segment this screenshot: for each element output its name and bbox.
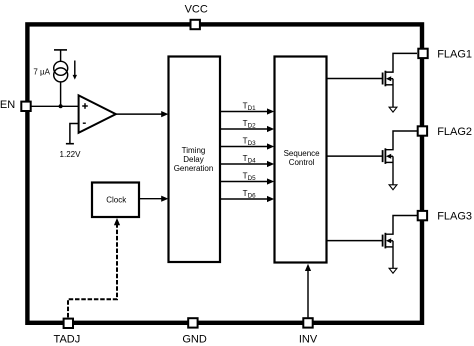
drain stub Q3 (385, 216, 417, 235)
svg-text:Delay: Delay (183, 155, 203, 164)
svg-text:FLAG3: FLAG3 (437, 211, 472, 223)
svg-text:INV: INV (299, 334, 318, 346)
transistor Q1 (FLAG1 driver) (327, 53, 418, 112)
gate wire Q3 (327, 240, 383, 242)
svg-text:Sequence: Sequence (284, 149, 321, 158)
wire EN to op-amp (31, 105, 79, 107)
source stub Q1 (385, 84, 393, 86)
wire TD6 (221, 189, 275, 202)
gate plate Q3 (382, 235, 384, 247)
body arrow Q2 (386, 154, 391, 159)
pin FLAG1 (418, 49, 427, 58)
drain stub Q2 (385, 131, 417, 150)
transistor Q2 (FLAG2 driver) (327, 131, 418, 190)
pin FLAG3 (418, 211, 427, 220)
source stub Q2 (385, 161, 393, 163)
body arrow Q1 (386, 76, 391, 81)
svg-text:Control: Control (289, 158, 315, 167)
channel Q2 (384, 148, 386, 164)
current source I1 7uA (54, 50, 68, 106)
reference 1.22V terminal (66, 124, 79, 144)
ground Q2 (389, 185, 397, 190)
op-amp comparator U1 (79, 95, 116, 132)
pin EN (21, 102, 30, 111)
transistor Q3 (FLAG3 driver) (327, 216, 418, 274)
svg-text:D5: D5 (248, 175, 257, 182)
wire TD5 (221, 171, 275, 184)
gate wire Q2 (327, 155, 383, 157)
wire Clock to Timing block (139, 196, 168, 202)
pin INV (303, 318, 312, 327)
ground Q1 (389, 107, 397, 112)
IC outline border (27, 24, 422, 322)
junction node EN/current source (59, 104, 63, 108)
ground Q3 (389, 268, 397, 273)
source down wire Q1 (392, 79, 394, 108)
source down wire Q2 (392, 156, 394, 185)
channel Q1 (384, 71, 386, 87)
source stub Q3 (385, 246, 393, 248)
minus input marker (83, 122, 86, 124)
plus input marker (82, 105, 88, 107)
svg-text:FLAG1: FLAG1 (437, 49, 472, 61)
wire TD2 (221, 119, 275, 132)
block Timing Delay Generation (169, 57, 221, 263)
pin GND (188, 318, 197, 327)
block Sequence Control (275, 57, 327, 263)
body arrow Q3 (386, 238, 391, 243)
dashed wire TADJ to Clock (68, 218, 120, 317)
gate plate Q1 (382, 73, 384, 85)
pin VCC (191, 20, 200, 29)
svg-text:D4: D4 (248, 157, 257, 164)
svg-text:7 µA: 7 µA (33, 68, 50, 77)
pin TADJ (64, 319, 73, 328)
channel Q3 (384, 233, 386, 249)
source down wire Q3 (392, 241, 394, 269)
svg-text:Generation: Generation (174, 164, 214, 173)
wire INV to Sequence Control (305, 264, 311, 318)
wire TD1 (221, 101, 275, 114)
svg-text:Clock: Clock (106, 195, 127, 204)
svg-text:D6: D6 (248, 192, 257, 199)
pin FLAG2 (418, 126, 427, 135)
gate plate Q2 (382, 150, 384, 162)
svg-text:D1: D1 (248, 105, 257, 112)
wire op-amp output to Timing block (116, 111, 169, 117)
wire TD3 (221, 136, 275, 149)
svg-text:D3: D3 (248, 140, 257, 147)
svg-text:GND: GND (182, 334, 207, 346)
block Clock (92, 183, 139, 218)
svg-text:Timing: Timing (182, 146, 206, 155)
svg-text:FLAG2: FLAG2 (437, 126, 472, 138)
svg-text:EN: EN (0, 99, 15, 111)
gate wire Q1 (327, 78, 383, 80)
svg-text:1.22V: 1.22V (60, 150, 82, 159)
drain stub Q1 (385, 53, 417, 72)
svg-text:VCC: VCC (185, 3, 208, 15)
current direction arrow (73, 61, 77, 80)
svg-text:TADJ: TADJ (54, 334, 81, 346)
svg-text:D2: D2 (248, 122, 257, 129)
wire TD4 (221, 154, 275, 167)
